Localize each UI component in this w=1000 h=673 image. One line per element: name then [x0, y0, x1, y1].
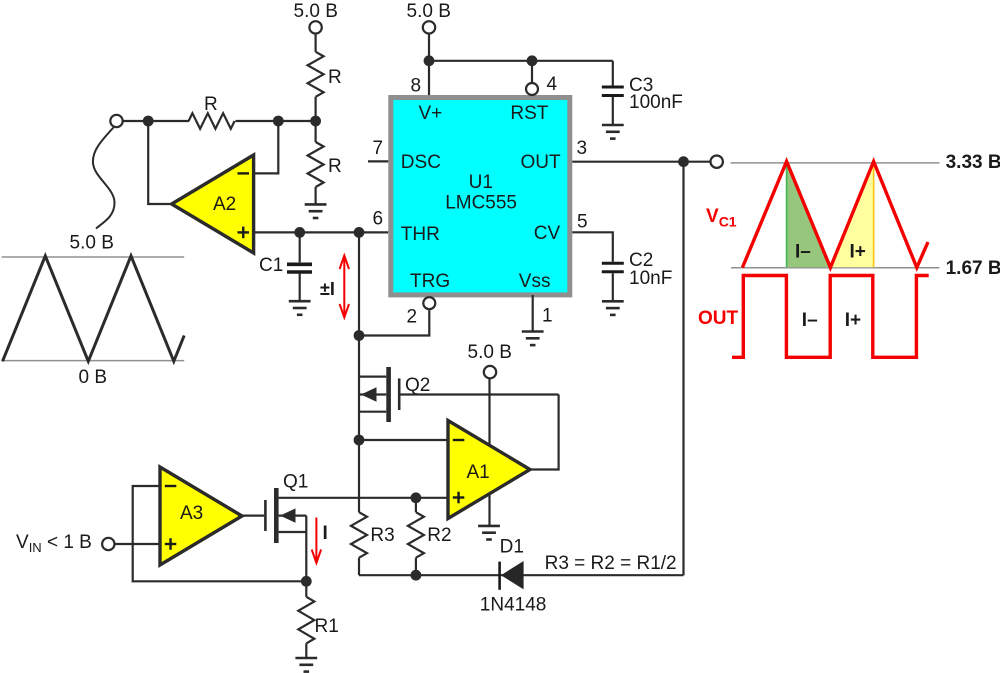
svg-text:I+: I+: [850, 242, 866, 263]
wire lower R to ground: [315, 187, 317, 204]
ground (R1): [295, 658, 317, 672]
svg-text:A3: A3: [180, 503, 203, 524]
input triangle waveform: [3, 256, 185, 361]
svg-text:OUT: OUT: [698, 308, 739, 329]
svg-text:2: 2: [407, 307, 418, 328]
node THR vertical: [354, 227, 365, 238]
wire Q1 drain to A1 + input: [279, 497, 448, 499]
svg-text:R: R: [328, 156, 342, 177]
svg-text:6: 6: [373, 209, 384, 230]
THR node vertical line: [358, 232, 360, 512]
svg-text:R1: R1: [315, 616, 339, 637]
wire R3 bottom to rail: [358, 558, 360, 576]
wire terminal to rail: [122, 120, 189, 122]
current arrow I: [312, 518, 321, 564]
Q2 gate bar: [398, 378, 401, 410]
svg-text:5.0 B: 5.0 B: [294, 1, 338, 22]
svg-text:1: 1: [542, 306, 553, 327]
svg-text:I+: I+: [845, 310, 861, 331]
shaded area I- (green): [787, 163, 831, 267]
wire A1 inverting input: [359, 439, 448, 441]
capacitor C3: [612, 61, 614, 86]
node A1 inverting branch: [354, 435, 365, 446]
svg-text:U1: U1: [469, 172, 493, 193]
svg-text:CV: CV: [534, 223, 561, 244]
terminal 5.0 B (divider): [309, 21, 321, 33]
terminal 5.0 B (A1): [484, 366, 496, 378]
resistor R2: [415, 498, 417, 512]
shaded area I+ (yellow): [830, 163, 873, 267]
VC1 triangle waveform: [742, 162, 928, 268]
node pin 8: [424, 55, 435, 66]
bottom rail R3/R2 to D1 to OUT vertical: [359, 574, 684, 576]
wire A2 + input to THR pin: [254, 231, 389, 233]
svg-text:5.0 B: 5.0 B: [407, 1, 451, 22]
svg-text:VIN < 1 B: VIN < 1 B: [16, 532, 92, 555]
node C1 top: [294, 227, 305, 238]
guide line 1.67 B: [731, 267, 940, 269]
node A3 feedback / R1: [301, 576, 312, 587]
svg-text:7: 7: [373, 138, 384, 159]
svg-text:R: R: [204, 94, 218, 115]
RST inversion bubble (pin 4): [526, 83, 538, 95]
wire terminal to pin 8: [428, 34, 430, 95]
wire TRG branch: [359, 310, 429, 335]
svg-text:10nF: 10nF: [629, 268, 672, 289]
Q2 source stub: [359, 411, 386, 413]
resistor R1: [305, 581, 307, 597]
wire pin 5 to C2: [572, 232, 613, 261]
svg-text:R2: R2: [427, 525, 451, 546]
OUT square waveform: [732, 276, 929, 358]
node TRG branch: [354, 330, 365, 341]
A3 minus sign: [165, 485, 177, 487]
node R2 top: [411, 492, 422, 503]
capacitor C2: [602, 263, 624, 272]
Q1 gate bar: [264, 500, 267, 531]
svg-text:I–: I–: [795, 242, 811, 263]
wire supply rail to C3: [429, 60, 613, 62]
guide line 3.33 B: [731, 162, 940, 164]
node at inverting riser: [273, 116, 284, 127]
Q1 source vertical: [305, 516, 307, 582]
A3 triangle: [160, 467, 242, 565]
wire A1 output feedback: [530, 395, 559, 470]
A2 plus sign: [238, 227, 250, 239]
terminal OUT: [711, 156, 723, 168]
A1 plus sign: [453, 492, 465, 504]
ground (pin 1): [522, 332, 544, 346]
svg-text:4: 4: [547, 74, 558, 95]
A1 supply line: [488, 378, 490, 526]
Q2 body stub with arrow: [360, 393, 386, 395]
op-amp A2: [172, 155, 254, 253]
svg-text:THR: THR: [401, 224, 440, 245]
A3 feedback wire: [133, 486, 307, 581]
svg-text:5.0 B: 5.0 B: [468, 342, 512, 363]
wire pin 3 OUT: [572, 161, 710, 163]
ground (divider): [305, 204, 327, 218]
resistor R3: [351, 512, 367, 558]
svg-text:D1: D1: [500, 537, 524, 558]
Q1 channel bar: [274, 488, 279, 543]
svg-text:R: R: [328, 67, 342, 88]
guide line 5.0 B level: [2, 256, 185, 258]
wire A2 output feedback: [148, 121, 172, 204]
svg-text:C1: C1: [259, 255, 283, 276]
ground (C3): [602, 125, 624, 139]
A3 plus sign: [165, 538, 177, 550]
wire A2 inverting input riser: [254, 121, 279, 173]
svg-text:8: 8: [411, 76, 422, 97]
svg-text:OUT: OUT: [521, 152, 562, 173]
A1 minus sign: [453, 439, 465, 441]
svg-text:Q2: Q2: [405, 375, 430, 396]
wire OUT vertical to D1: [682, 162, 684, 576]
svg-text:5: 5: [577, 212, 588, 233]
op-amp A1: [448, 421, 530, 519]
wire rail right of R: [236, 120, 316, 122]
ground (C1): [289, 301, 311, 315]
svg-text:A1: A1: [467, 462, 490, 483]
yellow peak line: [873, 163, 875, 268]
Q1 body stub with arrow: [279, 514, 307, 516]
green peak line: [786, 163, 788, 268]
ground (C2): [602, 301, 624, 315]
svg-text:R3 = R2 = R1/2: R3 = R2 = R1/2: [545, 553, 677, 574]
node OUT: [678, 156, 689, 167]
U1 LMC555: [391, 98, 570, 295]
svg-text:DSC: DSC: [401, 152, 441, 173]
svg-text:RST: RST: [510, 103, 548, 124]
guide line 0 B level: [2, 360, 185, 362]
TRG inversion bubble (pin 2): [423, 297, 435, 309]
svg-text:Q1: Q1: [283, 472, 308, 493]
capacitor C1: [299, 232, 301, 262]
svg-text:±I: ±I: [320, 279, 335, 299]
wire VIN to A3 + input: [114, 543, 160, 545]
squiggle pointer to 5.0 B label: [93, 128, 115, 229]
svg-text:R3: R3: [370, 525, 394, 546]
node R2 bottom: [411, 570, 422, 581]
pin 1 wire: [532, 295, 534, 332]
node at feedback riser: [143, 116, 154, 127]
svg-text:1N4148: 1N4148: [480, 595, 547, 616]
A2 minus sign: [238, 172, 250, 174]
wire Q2 gate to A1 feedback: [400, 393, 558, 395]
resistor R (divider upper): [308, 52, 324, 97]
terminal 5.0 B (chip): [423, 21, 435, 33]
svg-text:1.67 B: 1.67 B: [946, 258, 1000, 279]
terminal VIN: [102, 538, 114, 550]
terminal (A2 output node): [110, 115, 122, 127]
svg-text:0 B: 0 B: [79, 367, 108, 388]
current arrow ±I: [340, 256, 349, 318]
wire upper R to node: [315, 97, 317, 142]
wire pin 4: [531, 61, 533, 82]
svg-text:3: 3: [577, 138, 588, 159]
node pin 4: [527, 55, 538, 66]
pin 7 stub: [368, 160, 388, 162]
svg-text:TRG: TRG: [410, 271, 450, 292]
svg-text:A2: A2: [213, 194, 236, 215]
transistor Q1: [242, 472, 308, 582]
transistor Q2: [359, 367, 430, 422]
wire terminal to R: [315, 34, 317, 52]
Q2 channel bar: [386, 367, 391, 422]
svg-text:I–: I–: [802, 310, 818, 331]
svg-text:I: I: [323, 523, 328, 544]
ground (A1): [478, 526, 500, 540]
node at divider: [310, 116, 321, 127]
svg-text:3.33 B: 3.33 B: [946, 152, 1000, 173]
diode D1: [498, 562, 501, 590]
svg-text:V+: V+: [419, 103, 443, 124]
svg-text:Vss: Vss: [519, 271, 551, 292]
svg-text:LMC555: LMC555: [445, 193, 517, 214]
svg-text:100nF: 100nF: [629, 92, 683, 113]
Q2 drain stub: [359, 376, 386, 378]
svg-text:5.0 B: 5.0 B: [70, 233, 114, 254]
Q1 gate wire: [242, 514, 264, 516]
Q1 source stub: [279, 531, 307, 533]
resistor R (divider lower): [308, 142, 324, 187]
resistor R (feedback, horizontal): [189, 113, 235, 129]
